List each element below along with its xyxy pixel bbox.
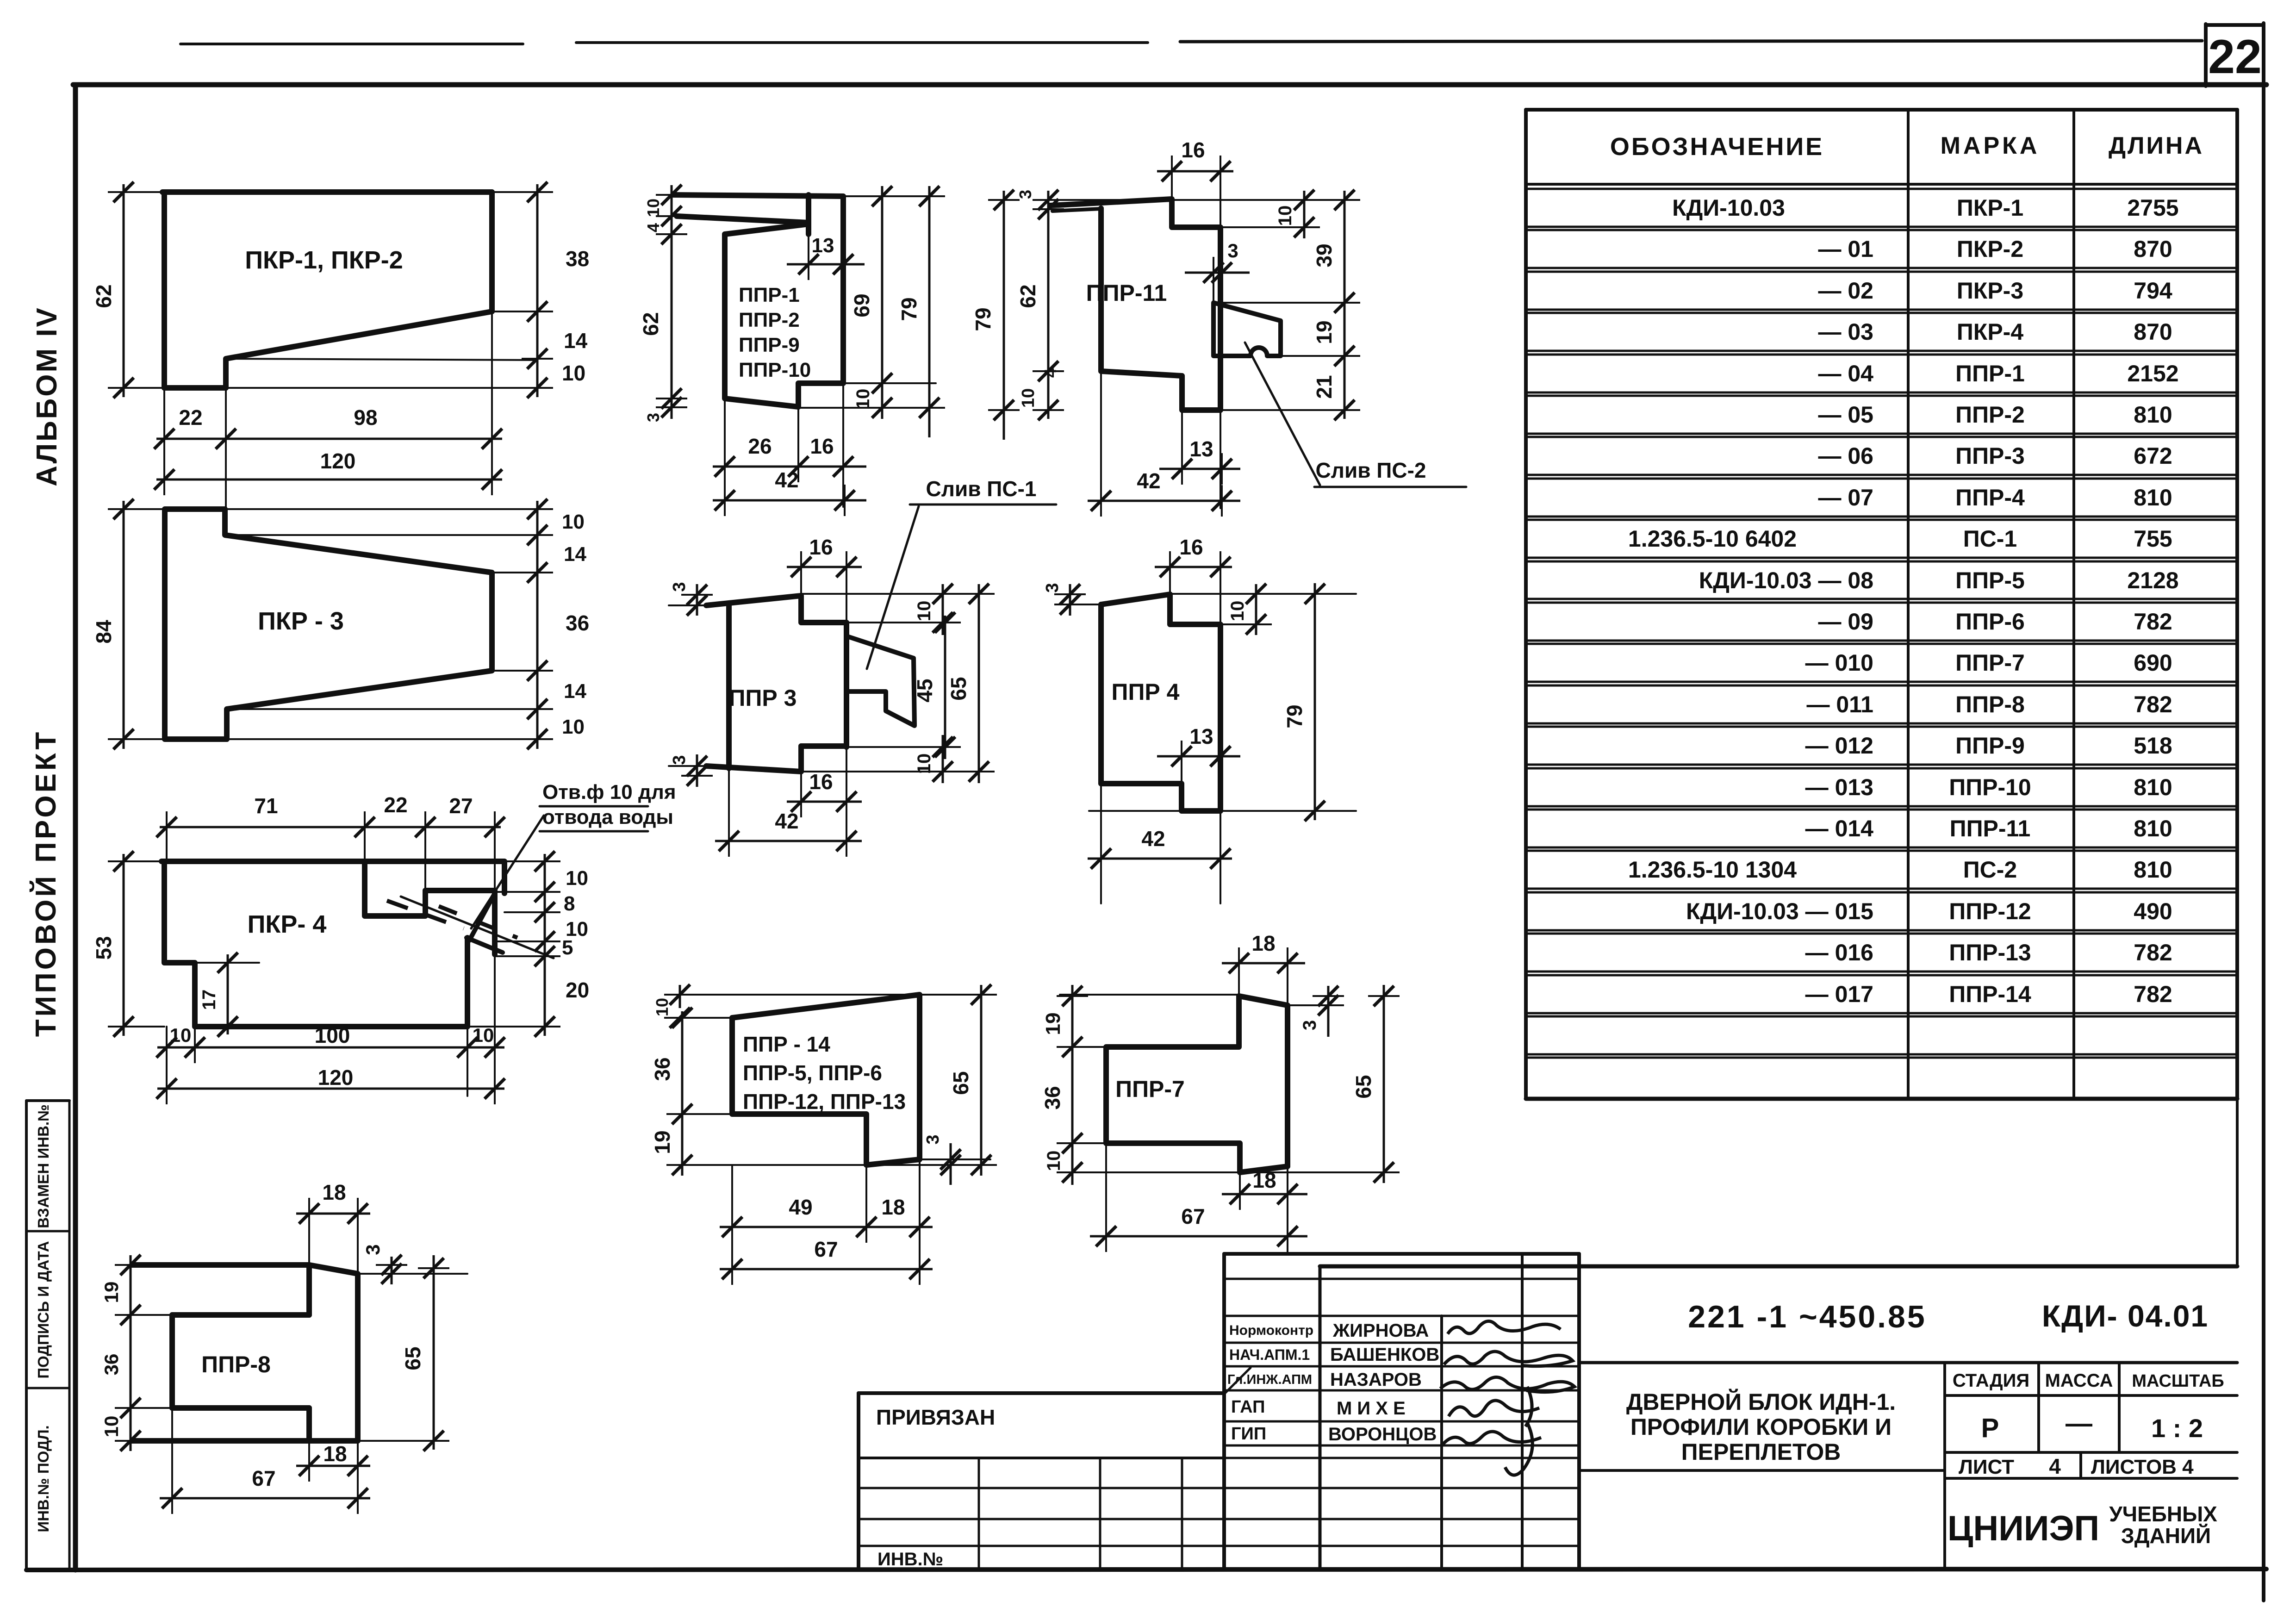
svg-text:2152: 2152 (2127, 361, 2178, 386)
PKR-4 left dims 53/17 (116, 860, 164, 862)
svg-text:ППР-14: ППР-14 (1949, 981, 2031, 1007)
svg-text:КДИ-10.03: КДИ-10.03 (1672, 195, 1785, 221)
svg-text:19: 19 (1312, 320, 1336, 344)
svg-text:КДИ- 04.01: КДИ- 04.01 (2042, 1299, 2209, 1333)
PPR-1 dim 13 (808, 237, 809, 278)
svg-text:810: 810 (2134, 485, 2172, 511)
svg-text:—: — (2066, 1408, 2092, 1439)
svg-text:3: 3 (670, 755, 689, 765)
svg-text:14: 14 (564, 329, 588, 353)
PPR-11 bottom dims 13/42 (1181, 410, 1183, 477)
title block main outline (1320, 1264, 2237, 1269)
svg-text:— 014: — 014 (1805, 816, 1874, 841)
svg-text:14: 14 (564, 680, 586, 703)
svg-text:10: 10 (100, 1416, 122, 1438)
PPR-8 left dims 19/36/10 (124, 1314, 172, 1316)
svg-text:490: 490 (2134, 898, 2172, 924)
svg-text:ПКР-2: ПКР-2 (1957, 236, 2023, 262)
svg-text:221 -1 ~450.85: 221 -1 ~450.85 (1688, 1299, 1926, 1334)
PPR-3 left dims 3/3 (669, 604, 706, 606)
svg-text:782: 782 (2134, 609, 2172, 635)
PPR-3 bottom dims 16/42 (800, 772, 802, 810)
svg-text:36: 36 (566, 611, 589, 635)
svg-text:ППР-1: ППР-1 (1955, 361, 2025, 386)
svg-text:794: 794 (2134, 278, 2172, 304)
svg-text:ППР-1: ППР-1 (739, 284, 800, 306)
svg-text:ДВЕРНОЙ БЛОК ИДН-1.: ДВЕРНОЙ БЛОК ИДН-1. (1626, 1389, 1896, 1415)
svg-text:62: 62 (1016, 284, 1040, 308)
svg-text:13: 13 (812, 234, 834, 257)
svg-text:ЛИСТ: ЛИСТ (1959, 1456, 2014, 1478)
svg-text:3: 3 (1016, 190, 1035, 199)
svg-text:МАРКА: МАРКА (1941, 132, 2040, 159)
PKR-4 right dims 10/8/10/5/20 (504, 860, 551, 862)
svg-text:79: 79 (971, 307, 995, 331)
svg-text:ТИПОВОЙ ПРОЕКТ: ТИПОВОЙ ПРОЕКТ (30, 729, 62, 1037)
svg-text:18: 18 (322, 1180, 346, 1204)
profile PKR-3 outline (165, 509, 227, 739)
specification table frame (1526, 108, 2237, 112)
PPR-11 dim 3 (drip offset) (1213, 262, 1214, 303)
svg-text:672: 672 (2134, 443, 2172, 469)
profile PKR-1 / PKR-2 outline (162, 189, 492, 195)
svg-text:1.236.5-10 1304: 1.236.5-10 1304 (1628, 857, 1797, 883)
svg-text:782: 782 (2134, 940, 2172, 965)
drip sill PS-2 outline with notch (1213, 303, 1281, 356)
svg-text:ИНВ.№ ПОДЛ.: ИНВ.№ ПОДЛ. (35, 1425, 52, 1532)
svg-text:3: 3 (644, 413, 663, 422)
svg-text:79: 79 (1282, 704, 1307, 728)
svg-text:17: 17 (199, 990, 219, 1010)
PPR-7 left dims 19/36/10 (1060, 994, 1239, 996)
svg-text:2128: 2128 (2127, 567, 2178, 593)
svg-text:10: 10 (1019, 388, 1038, 408)
PPR-11 top dim 16 (1171, 161, 1173, 199)
svg-text:ППР-12: ППР-12 (1949, 898, 2031, 924)
svg-text:ПКР-3: ПКР-3 (1957, 278, 2023, 304)
svg-text:Слив ПС-2: Слив ПС-2 (1316, 458, 1426, 482)
table rows (1526, 226, 2237, 228)
PPR-8 top dim 18 and 3 (308, 1201, 310, 1265)
svg-text:БАШЕНКОВ: БАШЕНКОВ (1330, 1345, 1439, 1365)
svg-text:69: 69 (850, 293, 874, 317)
PPR-4 dim 3 top left (1064, 604, 1101, 605)
profile PPR-1/2/9/10 outline (673, 195, 843, 407)
svg-text:Слив ПС-1: Слив ПС-1 (926, 477, 1037, 501)
svg-text:26: 26 (748, 434, 772, 458)
svg-text:— 02: — 02 (1818, 278, 1873, 304)
svg-text:18: 18 (323, 1442, 347, 1466)
svg-text:8: 8 (564, 892, 575, 915)
svg-text:3: 3 (670, 582, 689, 592)
profile PPR-11 outline (1050, 199, 1220, 410)
svg-text:120: 120 (318, 1065, 354, 1090)
svg-text:МАССА: МАССА (2045, 1370, 2113, 1391)
PKR-3 dims right 10/14/36/14/10 (536, 501, 539, 749)
svg-text:67: 67 (814, 1237, 838, 1261)
svg-text:65: 65 (401, 1346, 425, 1370)
svg-text:16: 16 (1179, 535, 1203, 559)
svg-text:— 011: — 011 (1806, 691, 1873, 717)
svg-text:19: 19 (1042, 1013, 1064, 1035)
svg-text:ПС-1: ПС-1 (1963, 526, 2017, 552)
svg-text:— 016: — 016 (1805, 940, 1873, 965)
svg-text:ППР-4: ППР-4 (1955, 485, 2025, 511)
svg-text:10: 10 (914, 601, 934, 622)
PKR-4 bottom dims 10/100/10/120 (166, 1027, 168, 1096)
svg-text:79: 79 (897, 297, 921, 321)
svg-text:Р: Р (1981, 1413, 1999, 1443)
svg-text:АЛЬБОМ IV: АЛЬБОМ IV (31, 306, 63, 486)
svg-text:СТАДИЯ: СТАДИЯ (1953, 1370, 2029, 1391)
svg-text:ГАП: ГАП (1231, 1397, 1265, 1417)
PPR-7 top dim 18 (1238, 954, 1240, 996)
svg-text:65: 65 (949, 1071, 973, 1095)
page number box 22 (2204, 24, 2208, 86)
PPR-8 right dim 65 (433, 1255, 435, 1450)
PPR-11 top right dim 10 (1050, 199, 1356, 201)
svg-text:10: 10 (562, 716, 585, 738)
svg-text:42: 42 (775, 809, 798, 833)
svg-text:ЦНИИЭП: ЦНИИЭП (1948, 1509, 2099, 1548)
svg-text:ЗДАНИЙ: ЗДАНИЙ (2121, 1524, 2211, 1548)
svg-text:М И Х Е: М И Х Е (1337, 1398, 1406, 1419)
PKR-1 bottom dims 22/98/120 (163, 388, 165, 490)
svg-text:22: 22 (2208, 30, 2262, 84)
PPR-3 top dim 16 (800, 558, 802, 596)
PPR-14 left dims 10/36/19 (677, 994, 995, 996)
svg-text:690: 690 (2134, 650, 2172, 676)
svg-text:3: 3 (1300, 1020, 1320, 1030)
svg-text:27: 27 (449, 794, 473, 818)
svg-text:10: 10 (566, 867, 588, 890)
svg-text:ПКР- 4: ПКР- 4 (248, 910, 327, 938)
svg-text:3: 3 (1043, 583, 1062, 592)
svg-text:ППР-8: ППР-8 (201, 1351, 271, 1377)
svg-text:19: 19 (650, 1130, 674, 1154)
svg-text:ППР-2: ППР-2 (1955, 402, 2025, 428)
svg-text:810: 810 (2134, 816, 2172, 841)
svg-text:16: 16 (810, 434, 834, 458)
svg-text:42: 42 (1137, 469, 1160, 493)
svg-text:10: 10 (644, 199, 663, 217)
PPR-4 dim 13 (1181, 747, 1182, 784)
svg-text:98: 98 (354, 405, 377, 430)
svg-text:18: 18 (1251, 931, 1275, 955)
svg-text:10: 10 (653, 998, 672, 1016)
svg-text:— 017: — 017 (1805, 981, 1873, 1007)
names sub-block frame (1224, 1252, 1579, 1256)
stadiya massa masshtab sub table (1943, 1363, 1946, 1569)
svg-text:ДЛИНА: ДЛИНА (2109, 132, 2204, 159)
PPR-4 bottom dim 42 (1100, 784, 1102, 903)
left margin stamp strip (25, 1101, 28, 1569)
svg-text:ППР-3: ППР-3 (1955, 443, 2025, 469)
svg-text:ПКР - 3: ПКР - 3 (258, 607, 344, 635)
svg-text:ЛИСТОВ 4: ЛИСТОВ 4 (2091, 1456, 2194, 1478)
svg-text:ППР 4: ППР 4 (1112, 679, 1180, 705)
svg-text:16: 16 (809, 535, 833, 559)
PPR-3 right dims 10/45/10/65 (801, 593, 986, 595)
svg-text:отвода воды: отвода воды (542, 806, 673, 828)
PPR-7 bottom dims 18/67 (1105, 1143, 1107, 1246)
svg-text:21: 21 (1312, 375, 1336, 399)
svg-text:22: 22 (384, 793, 407, 817)
svg-text:22: 22 (179, 405, 202, 430)
svg-text:13: 13 (1189, 724, 1213, 748)
svg-text:10: 10 (1044, 1151, 1064, 1171)
svg-text:ППР-13: ППР-13 (1949, 940, 2031, 965)
PPR-14 right dims 65/3 (676, 1164, 990, 1166)
svg-text:ПКР-1: ПКР-1 (1957, 195, 2023, 221)
svg-text:— 012: — 012 (1805, 733, 1873, 759)
svg-text:3: 3 (362, 1244, 384, 1255)
svg-text:3: 3 (1227, 240, 1238, 262)
svg-text:49: 49 (789, 1195, 812, 1219)
svg-text:10: 10 (914, 754, 934, 774)
svg-text:782: 782 (2134, 691, 2172, 717)
svg-text:ППР-2: ППР-2 (739, 309, 800, 331)
svg-text:ППР-12, ППР-13: ППР-12, ППР-13 (743, 1090, 906, 1114)
svg-text:100: 100 (315, 1023, 350, 1047)
svg-text:36: 36 (100, 1354, 122, 1376)
svg-text:НАЧ.АПМ.1: НАЧ.АПМ.1 (1229, 1346, 1310, 1363)
svg-text:65: 65 (1351, 1075, 1375, 1098)
svg-text:ППР-5: ППР-5 (1955, 567, 2025, 593)
svg-text:4: 4 (644, 223, 663, 232)
svg-text:ППР-10: ППР-10 (739, 359, 811, 381)
profile PPR-14/5/6/12/13 outline (732, 995, 920, 1159)
svg-text:14: 14 (564, 543, 586, 566)
svg-text:65: 65 (946, 677, 971, 700)
svg-text:1 : 2: 1 : 2 (2151, 1414, 2203, 1443)
PKR-4 drainage wedge (469, 893, 495, 940)
PPR-8 bottom dims 18/67 (132, 1440, 435, 1442)
profile PPR-8 outline (132, 1265, 358, 1441)
PPR-7 right dims 3/65 (1288, 1004, 1340, 1006)
svg-text:ПОДПИСЬ И ДАТА: ПОДПИСЬ И ДАТА (35, 1241, 52, 1378)
svg-text:ГИП: ГИП (1231, 1424, 1266, 1444)
svg-text:16: 16 (809, 770, 833, 794)
svg-text:ППР 3: ППР 3 (729, 685, 797, 711)
svg-text:120: 120 (320, 449, 356, 473)
svg-text:— 01: — 01 (1818, 236, 1873, 262)
signatures (1448, 1321, 1561, 1334)
svg-text:ППР-11: ППР-11 (1950, 816, 2031, 841)
profile PPR-4 outline (1101, 594, 1220, 811)
PKR-4 dashed water lines (387, 901, 464, 928)
svg-text:38: 38 (566, 247, 589, 271)
svg-text:ПРОФИЛИ КОРОБКИ И: ПРОФИЛИ КОРОБКИ И (1630, 1414, 1892, 1440)
svg-text:КДИ-10.03 — 08: КДИ-10.03 — 08 (1699, 567, 1873, 593)
PKR-1 dimension left 62 (116, 191, 164, 193)
PPR-4 top dim 16 (1169, 558, 1171, 594)
svg-text:10: 10 (1275, 206, 1295, 226)
profile PKR-4 outline (162, 861, 504, 893)
svg-text:ППР-8: ППР-8 (1955, 691, 2025, 717)
svg-text:39: 39 (1312, 243, 1336, 267)
svg-text:84: 84 (92, 620, 116, 644)
svg-text:ВОРОНЦОВ: ВОРОНЦОВ (1328, 1424, 1437, 1445)
table header (1526, 183, 2237, 186)
svg-text:ОБОЗНАЧЕНИЕ: ОБОЗНАЧЕНИЕ (1610, 133, 1824, 161)
svg-text:НАЗАРОВ: НАЗАРОВ (1330, 1370, 1422, 1390)
svg-text:67: 67 (252, 1466, 275, 1490)
svg-text:45: 45 (913, 679, 937, 702)
svg-text:782: 782 (2134, 981, 2172, 1007)
svg-text:ПКР-4: ПКР-4 (1957, 319, 2023, 345)
svg-text:5: 5 (562, 936, 573, 959)
svg-text:ППР-7: ППР-7 (1115, 1076, 1185, 1102)
svg-text:ППР-11: ППР-11 (1086, 280, 1167, 306)
svg-text:10: 10 (1227, 601, 1248, 622)
svg-text:Отв.ф 10 для: Отв.ф 10 для (542, 781, 676, 803)
svg-text:УЧЕБНЫХ: УЧЕБНЫХ (2109, 1502, 2217, 1526)
svg-text:— 03: — 03 (1818, 319, 1873, 345)
svg-text:Нормоконтр: Нормоконтр (1229, 1323, 1313, 1338)
svg-text:— 09: — 09 (1818, 609, 1873, 635)
svg-text:— 06: — 06 (1818, 443, 1873, 469)
svg-text:62: 62 (92, 284, 116, 308)
line under title area (1579, 1469, 1945, 1472)
svg-text:810: 810 (2134, 402, 2172, 428)
svg-text:— 05: — 05 (1818, 402, 1873, 428)
svg-text:МАСШТАБ: МАСШТАБ (2132, 1371, 2224, 1391)
svg-text:810: 810 (2134, 857, 2172, 883)
svg-text:71: 71 (254, 794, 278, 818)
svg-text:42: 42 (775, 468, 798, 492)
svg-text:— 010: — 010 (1805, 650, 1873, 676)
svg-text:ППР-6: ППР-6 (1955, 609, 2025, 635)
svg-text:ИНВ.№: ИНВ.№ (877, 1549, 943, 1569)
svg-text:1.236.5-10 6402: 1.236.5-10 6402 (1628, 526, 1797, 552)
svg-text:— 07: — 07 (1818, 485, 1873, 511)
svg-text:10: 10 (562, 511, 585, 533)
svg-text:16: 16 (1181, 138, 1205, 162)
svg-text:3: 3 (923, 1134, 943, 1144)
svg-text:— 013: — 013 (1805, 774, 1873, 800)
svg-text:20: 20 (566, 978, 589, 1002)
svg-text:ПЕРЕПЛЕТОВ: ПЕРЕПЛЕТОВ (1681, 1439, 1841, 1465)
svg-text:18: 18 (1252, 1168, 1276, 1192)
svg-text:36: 36 (650, 1057, 674, 1081)
svg-text:КДИ-10.03 — 015: КДИ-10.03 — 015 (1686, 898, 1873, 924)
svg-text:870: 870 (2134, 236, 2172, 262)
svg-text:ППР - 14: ППР - 14 (743, 1032, 830, 1056)
PPR-4 right dims 10/79 (1170, 593, 1356, 595)
svg-text:53: 53 (92, 936, 116, 959)
svg-text:67: 67 (1181, 1204, 1205, 1228)
svg-text:18: 18 (881, 1195, 905, 1219)
PKR-4 top dims 71/22/27 (166, 819, 168, 861)
profile PPR-3 outline (706, 596, 846, 747)
svg-text:10: 10 (853, 389, 873, 410)
svg-text:ВЗАМЕН ИНВ.№: ВЗАМЕН ИНВ.№ (35, 1104, 52, 1228)
PPR-11 left dims 79/3/62/4/10 (1003, 191, 1005, 440)
svg-text:755: 755 (2134, 526, 2172, 552)
privyazan box (859, 1391, 1224, 1395)
PPR-14 bottom dims 49/18/67 (731, 1165, 733, 1280)
svg-text:10: 10 (170, 1024, 192, 1046)
svg-text:— 04: — 04 (1818, 361, 1873, 386)
svg-text:36: 36 (1040, 1086, 1064, 1109)
svg-text:2755: 2755 (2127, 195, 2178, 221)
profile PPR-7 outline (1239, 996, 1288, 1166)
PKR-3 dim left 84 (116, 508, 165, 510)
svg-text:4: 4 (1041, 368, 1060, 378)
svg-text:42: 42 (1141, 827, 1165, 851)
svg-text:62: 62 (639, 312, 663, 336)
PPR-1 right dims 69/10/79 (843, 195, 936, 197)
svg-text:13: 13 (1189, 437, 1213, 461)
PPR-1 left dims 10/4/62/3 (666, 194, 673, 196)
svg-text:ППР-5, ППР-6: ППР-5, ППР-6 (743, 1061, 882, 1085)
svg-text:ПРИВЯЗАН: ПРИВЯЗАН (876, 1405, 995, 1429)
PPR-11 right dims 39/19/21 (1213, 302, 1354, 304)
drip sill PS-1 outline (846, 637, 915, 726)
svg-text:10: 10 (473, 1024, 494, 1046)
drawing frame border (73, 82, 2266, 87)
svg-text:ППР-9: ППР-9 (739, 334, 800, 356)
svg-text:ПС-2: ПС-2 (1963, 857, 2017, 883)
svg-text:ППР-10: ППР-10 (1949, 774, 2031, 800)
svg-text:ЖИРНОВА: ЖИРНОВА (1332, 1320, 1429, 1341)
table to title block connector line (2236, 1099, 2239, 1266)
svg-text:19: 19 (100, 1282, 122, 1303)
svg-text:ППР-7: ППР-7 (1955, 650, 2025, 676)
svg-text:870: 870 (2134, 319, 2172, 345)
PKR-1 dimensions right 38/14/10 (495, 191, 546, 193)
sheet top cut line (180, 43, 523, 45)
svg-text:518: 518 (2134, 733, 2172, 759)
svg-text:10: 10 (562, 361, 585, 385)
svg-text:4: 4 (2049, 1454, 2061, 1478)
PPR-1 bottom dims 26/16/42 (724, 399, 726, 515)
svg-text:810: 810 (2134, 774, 2172, 800)
svg-text:ППР-9: ППР-9 (1955, 733, 2025, 759)
svg-text:ПКР-1, ПКР-2: ПКР-1, ПКР-2 (245, 246, 403, 274)
